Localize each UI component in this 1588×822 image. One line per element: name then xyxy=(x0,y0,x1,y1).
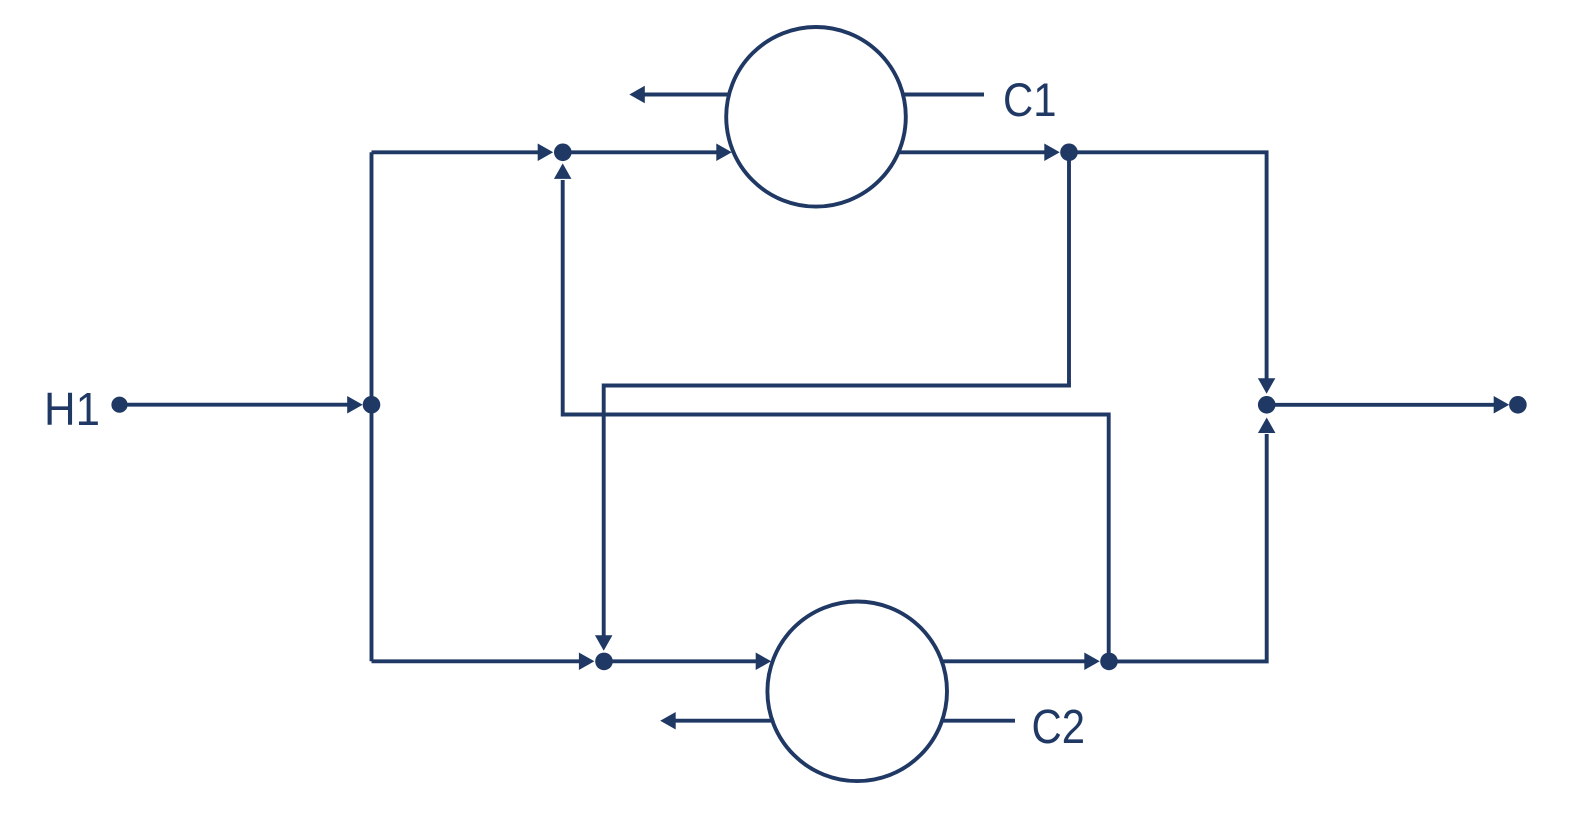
arrowhead into junction J1 xyxy=(347,396,363,414)
wire outlet to sink xyxy=(1267,403,1496,407)
node junction J4 xyxy=(595,653,613,671)
exchanger C2 circle xyxy=(767,602,947,782)
wire bypass B from J5 to J2 xyxy=(563,180,1109,661)
wire top branch to J2 xyxy=(372,150,547,154)
arrowhead into C2 xyxy=(756,653,772,671)
node sink dot xyxy=(1509,396,1527,414)
wire J4 to C2 inlet xyxy=(604,659,760,663)
arrowhead into junction J3 xyxy=(1044,144,1060,162)
arrowhead C1 cooling out xyxy=(629,86,645,104)
arrowhead C2 cooling out xyxy=(660,712,676,730)
svg-text:H1: H1 xyxy=(44,383,100,435)
wire H1 inlet xyxy=(120,403,351,407)
wire C2 cooling out line xyxy=(674,719,773,723)
arrowhead up into merge junction xyxy=(1258,418,1276,434)
node junction J5 xyxy=(1100,653,1118,671)
wire C2 tick to label xyxy=(942,719,1015,723)
wire C1 cooling out line xyxy=(643,93,729,97)
svg-text:C2: C2 xyxy=(1032,701,1086,754)
wire C1 tick to label xyxy=(903,93,984,97)
wire split trunk vertical xyxy=(370,152,374,661)
exchanger C1 circle xyxy=(726,27,906,207)
node junction J2 xyxy=(554,144,572,162)
arrowhead down into junction J4 xyxy=(595,635,613,651)
wire C2 outlet to J5 xyxy=(942,659,1089,663)
node junction J1 xyxy=(363,396,381,414)
node H1 source dot xyxy=(111,397,127,413)
wire C1 outlet to J3 xyxy=(899,150,1054,154)
wire J5 to merge junction bottom right xyxy=(1109,434,1267,661)
arrowhead into sink dot xyxy=(1494,396,1510,414)
wire bypass A from J3 to J4 xyxy=(604,152,1069,637)
wire J3 to merge junction top right xyxy=(1069,152,1267,380)
svg-text:C1: C1 xyxy=(1003,74,1057,127)
wire J2 to C1 inlet xyxy=(563,150,722,154)
arrowhead down into merge junction xyxy=(1258,378,1276,394)
node merge junction J7 xyxy=(1258,396,1276,414)
arrowhead into C1 xyxy=(716,144,732,162)
arrowhead up into junction J2 xyxy=(554,163,572,179)
wire bottom branch J1 to J4 xyxy=(372,659,586,663)
arrowhead into junction J5 xyxy=(1084,653,1100,671)
arrowhead into junction J2 xyxy=(538,144,554,162)
arrowhead into junction J4 xyxy=(579,653,595,671)
node junction J3 xyxy=(1060,144,1078,162)
